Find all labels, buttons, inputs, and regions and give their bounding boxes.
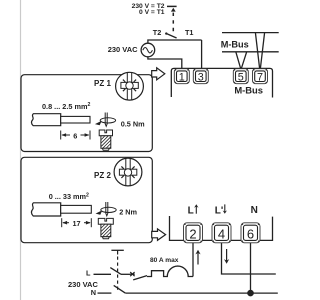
cable PZ2 insulation bbox=[31, 203, 60, 216]
svg-text:6: 6 bbox=[73, 131, 77, 140]
svg-text:N: N bbox=[251, 205, 258, 216]
svg-text:M-Bus: M-Bus bbox=[234, 85, 263, 96]
arrow up into terminal 2 bbox=[197, 252, 199, 265]
PZ1 box bbox=[21, 75, 152, 152]
screw PZ1 bbox=[99, 130, 112, 150]
M-Bus upper line bbox=[222, 32, 279, 34]
svg-text:L': L' bbox=[215, 206, 224, 217]
dimension 6 bbox=[61, 131, 90, 140]
svg-text:T2: T2 bbox=[153, 28, 162, 37]
device top outline bbox=[171, 68, 272, 97]
switch T2/T1 blade bbox=[166, 33, 177, 38]
svg-text:80 A max: 80 A max bbox=[150, 257, 179, 264]
wire selector to terminal 3 bbox=[201, 40, 203, 69]
frame guide line bbox=[20, 0, 22, 300]
PZ2 box bbox=[21, 157, 152, 242]
torque icon PZ2 bbox=[101, 202, 116, 216]
wire terminal2 down bbox=[192, 243, 194, 277]
terminal 2 bbox=[184, 223, 203, 243]
svg-text:1: 1 bbox=[179, 71, 185, 83]
cable PZ1 conductor bbox=[61, 116, 90, 123]
svg-text:5: 5 bbox=[238, 71, 244, 83]
cable PZ1 insulation bbox=[31, 114, 60, 126]
wire L to star bbox=[121, 273, 130, 275]
svg-text:PZ 2: PZ 2 bbox=[94, 171, 111, 180]
svg-text:7: 7 bbox=[257, 71, 263, 83]
svg-text:17: 17 bbox=[72, 219, 80, 228]
switch link T-bar bbox=[111, 249, 123, 251]
switch T2/T1 contact dot bbox=[165, 32, 167, 34]
AC source sine bbox=[143, 48, 153, 53]
arrow down from terminal 4 bbox=[226, 249, 228, 262]
wire source to T-selector bbox=[148, 40, 202, 43]
block arrow PZ2 to device bbox=[152, 229, 166, 240]
svg-text:2: 2 bbox=[189, 227, 196, 242]
screw PZ2 bbox=[98, 218, 113, 238]
terminal 7 bbox=[253, 69, 268, 84]
torque icon PZ1 bbox=[100, 113, 115, 127]
switch link dashed bbox=[117, 257, 119, 291]
svg-text:0.8 ... 2.5 mm2: 0.8 ... 2.5 mm2 bbox=[42, 102, 90, 111]
wire bumps to terminal 2 bbox=[147, 266, 193, 276]
wire source to terminal 1 bbox=[148, 57, 182, 69]
svg-text:2 Nm: 2 Nm bbox=[119, 207, 137, 216]
wire terminal6 down bbox=[250, 243, 252, 293]
wire L stub bbox=[94, 273, 112, 275]
switch blade 2 bbox=[133, 276, 147, 280]
svg-text:4: 4 bbox=[218, 227, 225, 242]
terminal 1 bbox=[174, 69, 189, 84]
pozidriv icon PZ2 bbox=[114, 158, 142, 186]
selector dashed link bbox=[172, 13, 174, 32]
svg-text:0 ... 33 mm2: 0 ... 33 mm2 bbox=[49, 192, 89, 201]
wire N line bbox=[125, 292, 277, 294]
terminal 3 bbox=[193, 69, 208, 84]
svg-text:0 V = T1: 0 V = T1 bbox=[139, 9, 165, 16]
terminal 6 bbox=[241, 223, 260, 243]
svg-text:N: N bbox=[91, 288, 96, 297]
svg-text:230 VAC: 230 VAC bbox=[108, 45, 138, 54]
svg-text:PZ 1: PZ 1 bbox=[94, 79, 111, 88]
junction dot N bbox=[247, 290, 254, 297]
svg-text:3: 3 bbox=[198, 71, 204, 83]
switch L blade bbox=[110, 268, 121, 275]
M-Bus lower line bbox=[222, 51, 279, 53]
selector arrow head bbox=[171, 8, 176, 12]
device bottom tray outline bbox=[170, 216, 273, 240]
block arrow PZ1 to device bbox=[152, 68, 165, 80]
AC source circle bbox=[141, 43, 155, 57]
wire terminal4 down and right bbox=[222, 243, 276, 274]
terminal 4 bbox=[212, 223, 231, 243]
switch N blade bbox=[114, 285, 126, 293]
svg-text:T1: T1 bbox=[185, 28, 194, 37]
cable PZ2 conductor bbox=[61, 205, 92, 213]
wire N stub bbox=[98, 292, 112, 294]
svg-text:6: 6 bbox=[247, 227, 254, 242]
svg-text:L: L bbox=[86, 268, 91, 277]
star contact mark bbox=[130, 272, 135, 276]
dimension 17 bbox=[62, 218, 92, 227]
svg-text:0.5 Nm: 0.5 Nm bbox=[121, 119, 145, 128]
pozidriv icon PZ1 bbox=[116, 72, 144, 100]
wire V to terminal 5 bbox=[236, 52, 247, 69]
svg-text:L: L bbox=[188, 206, 194, 217]
position dash mark bbox=[167, 5, 177, 7]
svg-text:M-Bus: M-Bus bbox=[221, 40, 249, 50]
terminal 5 bbox=[233, 69, 248, 84]
wire V to terminal 7 bbox=[255, 33, 264, 69]
